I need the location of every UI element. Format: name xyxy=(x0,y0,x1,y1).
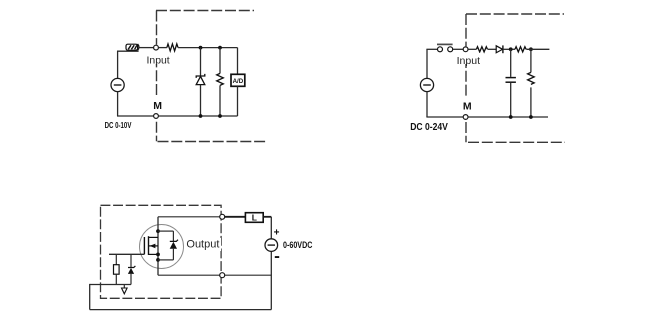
wire left rail lower xyxy=(426,92,428,117)
svg-text:DC 0-24V: DC 0-24V xyxy=(410,122,448,133)
wire stub to reference arrow xyxy=(123,285,125,289)
node top junction 2 xyxy=(218,46,222,50)
voltage source V2 circle xyxy=(420,78,433,91)
resistor R4 (series filter) xyxy=(515,47,526,52)
wire resistor branch lower xyxy=(530,87,532,117)
label minus sign xyxy=(275,256,279,258)
wire source bottom horizontal to terminal xyxy=(158,274,220,276)
wire gate resistor branch lower xyxy=(115,274,117,284)
svg-text:Input: Input xyxy=(457,56,481,67)
wire load to supply top xyxy=(263,216,271,218)
wire gate horizontal xyxy=(109,253,144,255)
wire bottom loop horizontal xyxy=(90,309,272,311)
svg-text:+: + xyxy=(274,228,280,239)
resistor R1 (series input) xyxy=(167,44,178,51)
wire diode to resistor2 xyxy=(503,48,515,50)
switch S1 actuator bar xyxy=(437,43,453,45)
transistor Q1 body arrow xyxy=(150,244,156,249)
wire resistor branch upper xyxy=(530,49,532,72)
node source junction lower xyxy=(156,258,160,262)
wire left loop vertical xyxy=(89,284,91,310)
module boundary dashed top edge xyxy=(156,10,254,12)
switch S1 contact circle right xyxy=(448,47,453,52)
wire drain lead vertical xyxy=(157,217,159,275)
resistor R3 (series input) xyxy=(476,47,487,52)
wire body diode top rail xyxy=(158,230,173,232)
wire terminal to resistor xyxy=(468,48,476,50)
wire body diode lower lead xyxy=(172,249,174,260)
wire gate resistor branch upper xyxy=(115,254,117,264)
diode D1 triangle xyxy=(496,46,502,53)
label M xyxy=(460,97,473,110)
svg-text:DC 0-10V: DC 0-10V xyxy=(105,120,132,130)
svg-text:M: M xyxy=(463,101,472,113)
wire plus terminal to load xyxy=(225,216,246,218)
module boundary dashed bottom edge xyxy=(158,141,268,143)
node top junction cap xyxy=(509,47,513,51)
wire bottom rail xyxy=(117,115,238,117)
terminal M (open circle) xyxy=(154,114,159,119)
wire gate zener branch upper xyxy=(130,254,132,267)
wire switch to terminal xyxy=(453,48,463,50)
node bottom junction 1 xyxy=(199,114,203,118)
wire left rail lower xyxy=(117,92,119,116)
wire capacitor branch lower xyxy=(510,83,512,117)
transistor Q1 drain stub xyxy=(149,236,159,238)
voltage source V3 circle xyxy=(265,239,278,252)
fuse F1 body xyxy=(126,44,138,50)
voltage source V1 minus bar xyxy=(114,84,122,86)
transistor Q1 channel bar xyxy=(148,236,150,255)
wire bottom rail xyxy=(426,116,548,118)
wire A/D top lead xyxy=(237,48,239,75)
label M xyxy=(150,97,162,110)
wire resistor to diode xyxy=(488,48,497,50)
svg-text:M: M xyxy=(153,100,162,112)
wire from fuse to terminal xyxy=(139,47,153,49)
transistor Q1 envelope circle xyxy=(140,225,184,269)
switch S1 contact circle left xyxy=(438,47,443,52)
zener diode Z3 cathode bar xyxy=(128,266,135,268)
resistor R5 (shunt) xyxy=(528,72,535,84)
module boundary dashed left edge (hand-phased) xyxy=(465,14,467,142)
wire resistor branch upper xyxy=(219,48,221,74)
wire zener branch lower xyxy=(200,85,202,116)
node source junction upper xyxy=(156,253,160,257)
wire minus terminal to supply xyxy=(225,274,272,276)
reference potential arrow xyxy=(122,288,128,294)
module boundary dashed rectangle xyxy=(101,205,222,298)
wire body diode upper lead xyxy=(172,231,174,241)
wire drain top horizontal to terminal xyxy=(158,216,220,218)
wire top rail right end xyxy=(526,48,549,50)
zener diode Z1 triangle xyxy=(196,76,205,84)
zener diode Z3 triangle xyxy=(128,268,134,274)
capacitor C1 bottom plate xyxy=(506,81,516,83)
svg-text:Input: Input xyxy=(147,56,170,67)
wire left rail vertical xyxy=(117,51,119,78)
voltage source V3 minus bar xyxy=(268,244,275,246)
transistor Q1 source stub xyxy=(149,253,159,255)
node bottom junction 2 xyxy=(218,114,222,118)
wire left rail upper xyxy=(426,49,428,78)
svg-text:Output: Output xyxy=(186,239,219,251)
transistor Q1 gate bar xyxy=(143,237,145,254)
zener diode Z1 cathode bar xyxy=(196,74,205,78)
wire to switch xyxy=(426,48,437,50)
terminal Input (open circle) xyxy=(463,47,468,52)
node top junction res xyxy=(529,47,533,51)
body diode Z2 triangle xyxy=(170,242,177,249)
label Input xyxy=(146,53,171,64)
wire top rail to A/D corner xyxy=(178,47,237,49)
wire right loop vertical xyxy=(270,252,272,310)
terminal output plus (open circle) xyxy=(220,214,225,219)
node top junction 1 xyxy=(199,46,203,50)
node bottom junction cap xyxy=(509,115,513,119)
svg-text:L: L xyxy=(252,212,257,222)
label Input xyxy=(456,53,482,64)
transistor Q1 body stub xyxy=(149,245,159,247)
body diode Z2 cathode bar xyxy=(170,240,178,242)
resistor R2 (shunt) xyxy=(217,73,224,85)
terminal M (open circle) xyxy=(463,115,468,120)
label Output xyxy=(184,238,221,251)
wire top-left horizontal under fuse xyxy=(117,50,139,52)
fuse F1 hatch marks xyxy=(128,45,137,49)
wire body diode bottom rail xyxy=(158,259,173,261)
capacitor C1 top plate xyxy=(506,77,516,79)
load L box xyxy=(245,213,263,223)
wire zener branch upper xyxy=(200,48,202,76)
wire gate network bottom junction xyxy=(90,284,131,286)
terminal output minus (open circle) xyxy=(220,273,225,278)
fuse F1 right arc xyxy=(138,44,139,51)
wire A/D bottom lead xyxy=(237,86,239,116)
terminal Input (open circle) xyxy=(154,45,159,50)
resistor R6 (gate, box style) xyxy=(114,265,120,275)
wire gate zener branch lower xyxy=(130,274,132,285)
wire capacitor branch upper xyxy=(510,49,512,77)
wire resistor branch lower xyxy=(219,85,221,116)
voltage source V2 minus bar xyxy=(423,84,431,86)
wire supply top vertical xyxy=(270,217,272,239)
voltage source V1 circle xyxy=(111,78,124,91)
svg-text:A/D: A/D xyxy=(233,78,244,85)
A/D converter U1 box xyxy=(231,74,245,86)
module boundary dashed left edge (hand-phased) xyxy=(156,11,158,142)
node bottom junction res xyxy=(529,115,533,119)
node drain junction xyxy=(156,229,160,233)
svg-text:0-60VDC: 0-60VDC xyxy=(283,240,312,251)
module boundary dashed bottom edge xyxy=(468,141,565,143)
module boundary dashed top edge xyxy=(466,13,564,15)
wire terminal to resistor xyxy=(158,47,167,49)
diode D1 cathode bar xyxy=(502,45,504,53)
